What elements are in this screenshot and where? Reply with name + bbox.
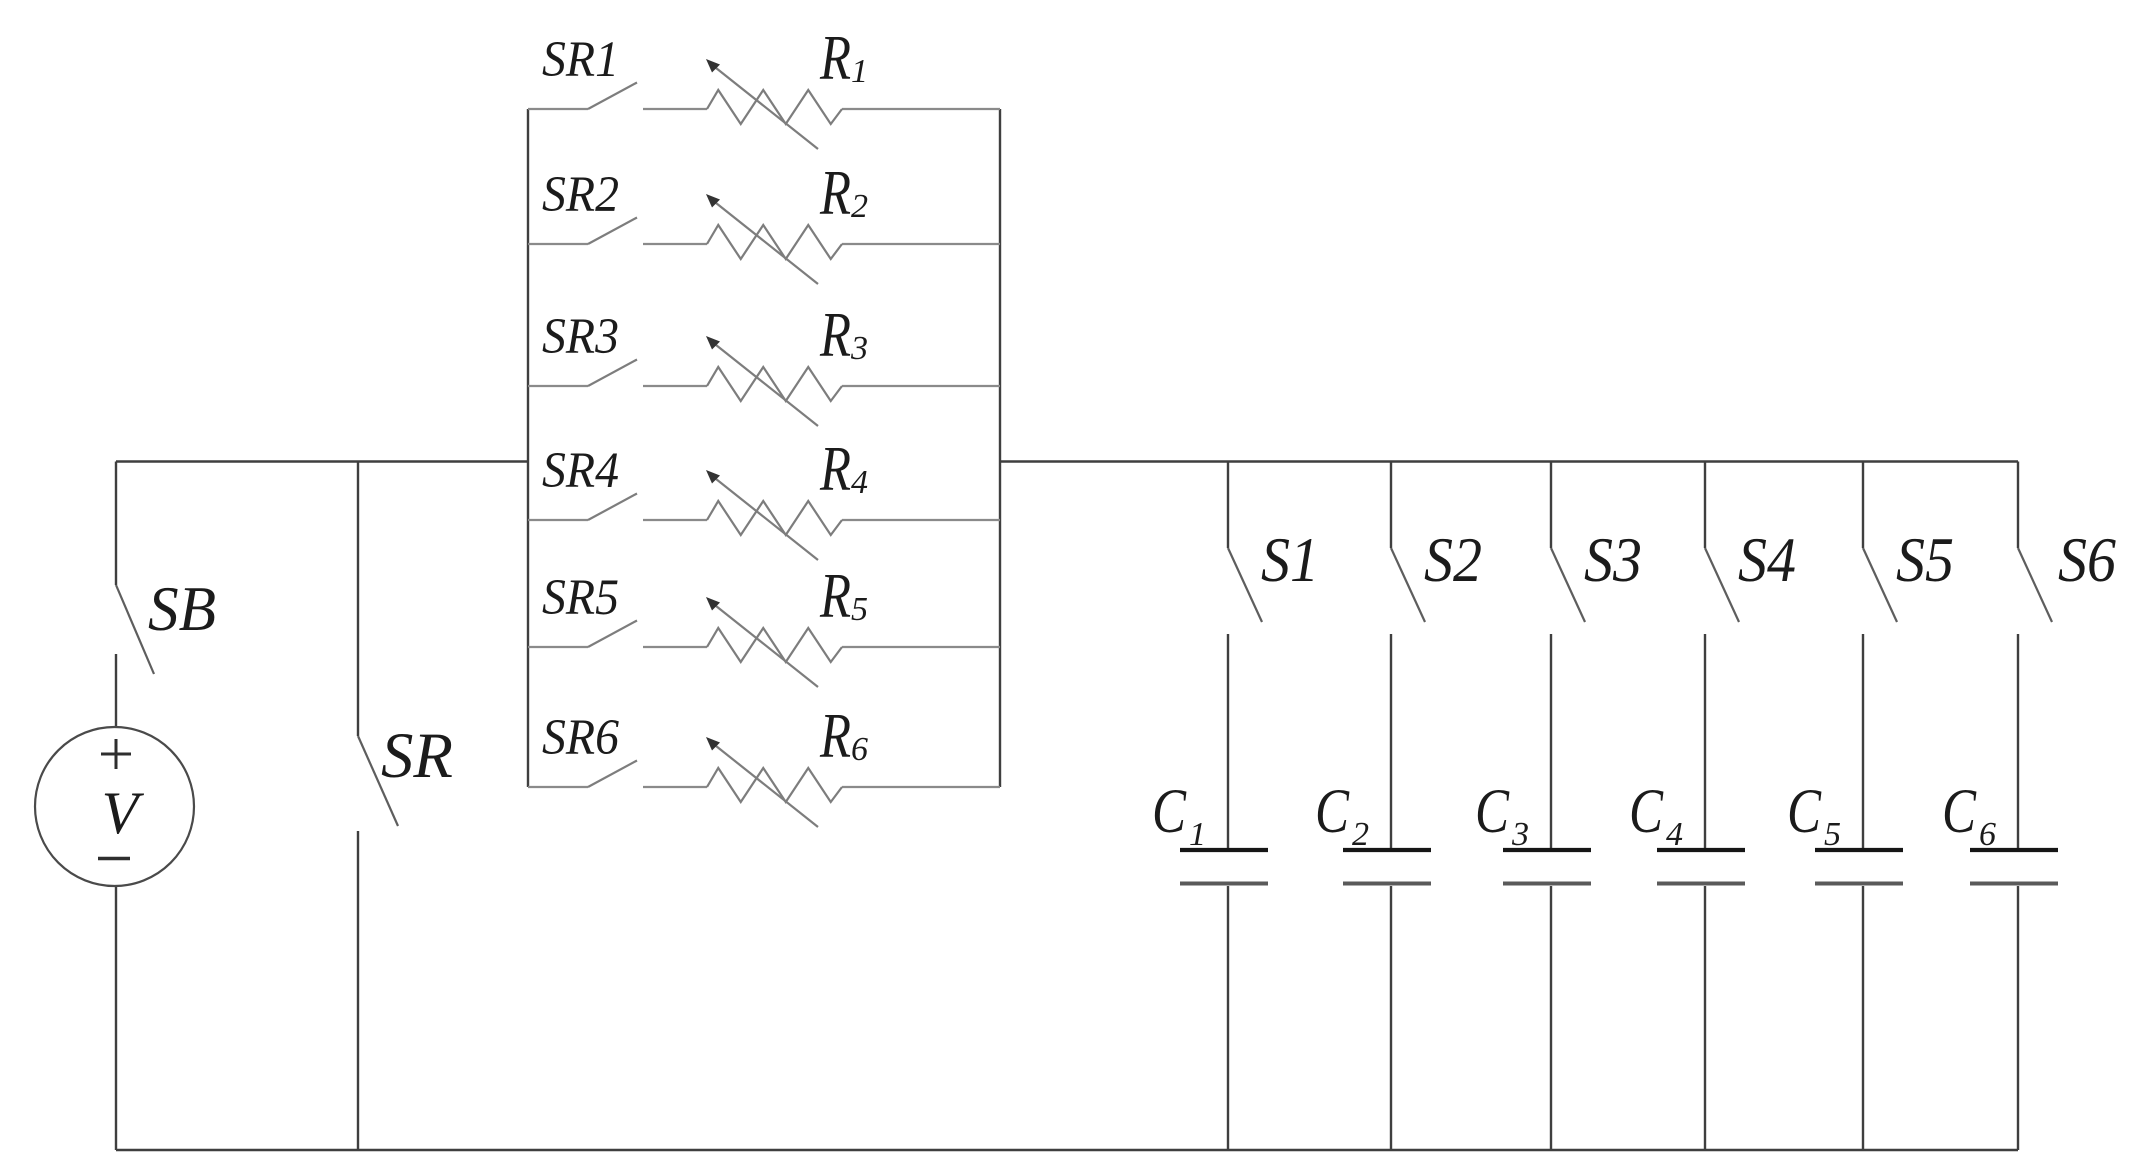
- svg-text:1: 1: [1189, 816, 1206, 853]
- svg-text:C: C: [1629, 776, 1664, 846]
- svg-text:R: R: [819, 23, 851, 93]
- svg-text:R: R: [819, 561, 851, 631]
- svg-text:S1: S1: [1261, 525, 1319, 595]
- svg-text:SR6: SR6: [542, 710, 619, 766]
- svg-text:S4: S4: [1738, 525, 1796, 595]
- svg-text:R: R: [819, 701, 851, 771]
- svg-text:C: C: [1475, 776, 1510, 846]
- svg-text:R: R: [819, 434, 851, 504]
- svg-text:2: 2: [1352, 816, 1369, 853]
- svg-text:S3: S3: [1584, 525, 1642, 595]
- svg-text:2: 2: [851, 188, 868, 225]
- svg-text:SR2: SR2: [542, 167, 619, 223]
- svg-text:C: C: [1942, 776, 1977, 846]
- svg-text:4: 4: [1666, 816, 1683, 853]
- svg-text:SR5: SR5: [542, 570, 619, 626]
- svg-text:C: C: [1787, 776, 1822, 846]
- svg-text:5: 5: [851, 591, 868, 628]
- svg-text:SR1: SR1: [542, 32, 619, 88]
- svg-text:3: 3: [850, 330, 868, 367]
- svg-text:R: R: [819, 300, 851, 370]
- svg-text:1: 1: [851, 53, 868, 90]
- svg-text:5: 5: [1824, 816, 1841, 853]
- svg-text:SR4: SR4: [542, 443, 619, 499]
- svg-text:C: C: [1315, 776, 1350, 846]
- svg-text:SB: SB: [148, 574, 216, 644]
- svg-text:SR3: SR3: [542, 309, 619, 365]
- svg-text:S5: S5: [1896, 525, 1954, 595]
- svg-text:4: 4: [851, 464, 868, 501]
- svg-text:C: C: [1152, 776, 1187, 846]
- svg-text:SR: SR: [381, 720, 453, 792]
- svg-text:6: 6: [1979, 816, 1996, 853]
- svg-text:V: V: [102, 780, 145, 846]
- svg-text:S2: S2: [1424, 525, 1482, 595]
- svg-text:3: 3: [1511, 816, 1529, 853]
- svg-text:S6: S6: [2058, 525, 2116, 595]
- svg-text:6: 6: [851, 731, 868, 768]
- svg-text:R: R: [819, 158, 851, 228]
